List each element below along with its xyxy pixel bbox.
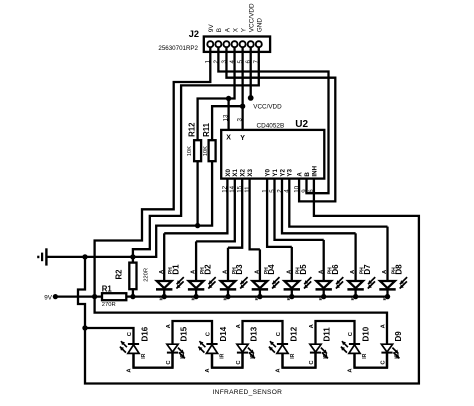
resistor R11 value 10K — [203, 146, 209, 156]
U2 pin label Y3 — [287, 168, 294, 176]
photodiode D6 — [316, 240, 344, 299]
IR LED D15 — [167, 344, 185, 368]
connector J2 value label 25630701RP2 — [158, 45, 198, 52]
wire R11 bottom to join node — [198, 161, 213, 225]
net label VCC/VDD — [253, 104, 282, 111]
D8 pin label A — [382, 269, 388, 274]
svg-text:Y0: Y0 — [265, 168, 272, 176]
svg-text:D5: D5 — [299, 264, 308, 275]
D2 pin label A — [191, 269, 197, 274]
photodiode D5 refdes label — [299, 264, 308, 275]
D14 pin label C — [205, 331, 211, 336]
D6 pin label K — [318, 296, 323, 300]
photodiode D2 — [188, 241, 216, 299]
wire 9V terminal to R1 — [55, 295, 102, 297]
D5 pin label K — [286, 296, 291, 300]
svg-text:3: 3 — [236, 118, 243, 122]
resistor R2 body — [129, 263, 136, 290]
connector J2 refdes label — [189, 29, 199, 39]
wire B: J2 pin2 to U2 pin9 — [218, 47, 328, 193]
svg-text:X3: X3 — [247, 168, 254, 176]
wire U2 Y0 to D5 anode — [267, 179, 292, 247]
pin number 6 of U2 — [308, 189, 315, 193]
D8 pin label K — [382, 296, 387, 300]
D7 label PH — [360, 267, 366, 274]
svg-text:D11: D11 — [322, 327, 331, 342]
D9 pin label C — [380, 360, 386, 365]
wire U2 Y2 to D7 anode — [282, 179, 356, 234]
net label INFRARED_SENSOR — [213, 389, 283, 396]
pin number 10 of U2 — [293, 185, 300, 192]
pin number 14 of U2 — [229, 185, 236, 192]
svg-text:D15: D15 — [179, 326, 188, 341]
D5 label PH — [296, 267, 302, 274]
wire D15 anode to D14 cathode (top) — [173, 321, 213, 344]
pin number 9 of U2 — [301, 189, 308, 193]
svg-text:13: 13 — [222, 114, 229, 121]
D7 pin label A — [350, 269, 356, 274]
D12 pin label C — [276, 331, 282, 336]
net name label VCC/VDD on J2 pin 6 — [249, 3, 256, 32]
pin number 1 of U2 — [261, 189, 268, 193]
wire R12 bottom to join node — [196, 161, 198, 225]
D1 pin label K — [159, 296, 164, 300]
svg-text:GND: GND — [257, 18, 264, 33]
connector J2 pin 7 circle — [256, 41, 262, 47]
svg-text:D7: D7 — [363, 264, 372, 275]
U2 value label CD4052B — [257, 123, 285, 130]
svg-text:D3: D3 — [235, 264, 244, 275]
svg-text:Y1: Y1 — [272, 168, 279, 176]
net name label 9V on J2 pin 1 — [208, 24, 215, 33]
wire D16 cathode to loop — [85, 328, 134, 344]
junction R1 right / R2 bottom / cathode bus — [130, 294, 135, 299]
svg-text:D4: D4 — [267, 264, 276, 275]
U2 pin label X — [226, 135, 231, 142]
net name label A on J2 pin 3 — [224, 27, 231, 32]
resistor R2 value 220R — [143, 268, 149, 282]
svg-text:25630701RP2: 25630701RP2 — [158, 45, 198, 52]
pin number 2 of J2 — [213, 60, 220, 64]
op-amp/mux U2 body — [221, 130, 324, 179]
photodiode D4 — [252, 249, 280, 299]
wire U2 X0 to D1 anode — [164, 179, 227, 234]
svg-text:10K: 10K — [203, 146, 209, 156]
svg-text:D14: D14 — [219, 326, 228, 341]
D16 pin label C — [127, 331, 133, 336]
U2 pin label A — [297, 172, 304, 177]
svg-text:U2: U2 — [295, 119, 308, 130]
svg-text:Y3: Y3 — [287, 168, 294, 176]
D10 pin label A — [348, 368, 354, 373]
photodiode D6 refdes label — [331, 264, 340, 275]
pin number 5 of J2 — [237, 60, 244, 64]
D4 label PH — [264, 267, 270, 274]
IR LED D16 — [120, 341, 139, 368]
resistor R12 refdes label — [188, 122, 197, 137]
U2 pin label INH — [311, 165, 318, 176]
IR LED D11 — [310, 344, 328, 368]
wire D16 anode to D15 cathode — [134, 353, 173, 368]
resistor R1 body — [102, 293, 126, 300]
pin number 12 of U2 — [222, 185, 229, 192]
D3 pin label K — [222, 296, 227, 300]
net name label B on J2 pin 2 — [216, 28, 223, 32]
resistor R1 value 270R — [102, 302, 116, 308]
svg-text:IR: IR — [323, 353, 329, 358]
D14 label IR — [220, 353, 226, 358]
connector J2 pin 6 circle — [248, 41, 254, 47]
wire U2 Y1 to D6 anode — [275, 179, 324, 240]
svg-text:9: 9 — [301, 189, 308, 193]
D15 pin label A — [166, 323, 172, 328]
svg-text:Y: Y — [240, 27, 247, 32]
svg-text:INFRARED_SENSOR: INFRARED_SENSOR — [213, 389, 283, 396]
svg-text:X2: X2 — [240, 168, 247, 176]
IR LED D16 refdes label — [140, 326, 149, 341]
pin number 4 of J2 — [229, 60, 236, 64]
svg-text:B: B — [216, 28, 223, 32]
D12 label IR — [290, 353, 296, 358]
D11 pin label C — [309, 360, 315, 365]
svg-text:J2: J2 — [189, 29, 199, 39]
D3 label PH — [232, 267, 238, 274]
svg-text:IR: IR — [395, 353, 401, 358]
svg-text:R11: R11 — [202, 122, 211, 137]
pin number 7 of J2 — [253, 60, 260, 64]
svg-text:D12: D12 — [289, 326, 298, 341]
svg-text:D6: D6 — [331, 264, 340, 275]
connector J2 pin 2 circle — [215, 41, 221, 47]
IR LED D10 refdes label — [361, 326, 370, 341]
IR LED D12 refdes label — [289, 326, 298, 341]
D14 pin label A — [205, 368, 211, 373]
D5 pin label A — [286, 269, 292, 274]
D16 label IR — [141, 353, 147, 358]
wire D13 anode to D12 cathode (top) — [243, 321, 283, 344]
D13 pin label A — [236, 323, 242, 328]
svg-text:D10: D10 — [361, 326, 370, 341]
U2 pin label X2 — [240, 168, 247, 176]
wire GND: J2 pin7 stair-step to ground rail — [133, 47, 259, 257]
U2 pin label Y2 — [279, 168, 286, 176]
svg-text:D13: D13 — [249, 326, 258, 341]
IR LED D14 — [198, 341, 217, 368]
wire U2 Y3 to D8 anode — [289, 179, 387, 227]
pin number 5 of U2 — [269, 189, 276, 193]
D2 label PH — [200, 267, 206, 274]
photodiode D8 refdes label — [395, 264, 404, 275]
wire U2 X2 to D3 anode — [228, 179, 242, 248]
svg-text:9V: 9V — [44, 294, 53, 301]
photodiode D2 refdes label — [203, 264, 212, 275]
svg-text:270R: 270R — [102, 302, 116, 308]
connector J2 body — [204, 37, 270, 52]
D12 pin label A — [276, 368, 282, 373]
U2 pin label Y — [240, 135, 245, 142]
pin number 3 of J2 — [221, 60, 228, 64]
wire Y: J2 pin5 down to U2 pin3 — [241, 47, 243, 130]
IR LED D14 refdes label — [219, 326, 228, 341]
wire photodiode cathode bus — [133, 295, 388, 297]
resistor R12 value 10K — [187, 146, 193, 156]
wire ground rail — [46, 256, 132, 258]
pin number 2 of U2 — [276, 189, 283, 193]
wire A: J2 pin3 to U2 pin10 — [226, 47, 335, 201]
D9 label IR — [395, 353, 401, 358]
svg-text:VCC/VDD: VCC/VDD — [249, 3, 256, 32]
pin number 13 of U2 — [222, 114, 229, 121]
D6 pin label A — [318, 269, 324, 274]
pin number 4 of U2 — [284, 189, 291, 193]
wire D11 anode to D10 cathode (top) — [316, 321, 355, 344]
photodiode D7 — [347, 233, 375, 299]
connector J2 pin 3 circle — [223, 41, 229, 47]
svg-text:B: B — [304, 172, 311, 177]
net name label X on J2 pin 4 — [232, 27, 239, 32]
D13 label IR — [250, 353, 256, 358]
svg-text:10: 10 — [293, 185, 300, 192]
photodiode D3 — [220, 248, 248, 300]
photodiode D4 refdes label — [267, 264, 276, 275]
D4 pin label A — [255, 269, 261, 274]
svg-text:IR: IR — [180, 353, 186, 358]
U2 pin label B — [304, 172, 311, 177]
IR LED D9 — [381, 344, 399, 368]
pin number 6 of J2 — [245, 60, 252, 64]
svg-text:10K: 10K — [187, 146, 193, 156]
wire VCC/VDD stub from J2 pin6 — [250, 47, 252, 98]
D11 label IR — [323, 353, 329, 358]
D13 pin label C — [236, 360, 242, 365]
svg-text:IR: IR — [250, 353, 256, 358]
U2 pin label X3 — [247, 168, 254, 176]
svg-text:220R: 220R — [143, 268, 149, 282]
node 9V terminal — [53, 294, 58, 299]
svg-text:IR: IR — [290, 353, 296, 358]
connector J2 pin 1 circle — [207, 41, 213, 47]
svg-text:D9: D9 — [394, 331, 403, 342]
IR LED D13 refdes label — [249, 326, 258, 341]
IR LED D11 refdes label — [322, 327, 331, 342]
photodiode D8 — [379, 227, 407, 300]
svg-text:R2: R2 — [115, 269, 124, 280]
wire D10 anode to D9 cathode — [355, 353, 388, 368]
IR LED D12 — [269, 341, 288, 368]
net name label GND on J2 pin 7 — [257, 18, 264, 33]
svg-text:D1: D1 — [171, 264, 180, 275]
wire X node to R12 top — [198, 99, 229, 141]
D9 pin label A — [380, 323, 386, 328]
pin number 15 of U2 — [237, 185, 244, 192]
net label 9V — [44, 294, 53, 301]
wire D14 anode to D13 cathode — [212, 353, 243, 368]
U2 pin label X0 — [225, 168, 232, 176]
svg-text:VCC/VDD: VCC/VDD — [253, 104, 282, 111]
pin number 3 of U2 — [236, 118, 243, 122]
D2 pin label K — [190, 296, 195, 300]
node X junction — [226, 96, 231, 101]
junction R11/R12 bottoms — [195, 223, 200, 228]
wire U2 X3 to D4 anode — [250, 179, 260, 250]
U2 refdes label — [295, 119, 308, 130]
D10 label IR — [362, 353, 368, 358]
svg-text:D2: D2 — [203, 264, 212, 275]
svg-text:IR: IR — [141, 353, 147, 358]
U2 pin label X1 — [232, 168, 239, 176]
wire R1 right — [126, 295, 133, 297]
D15 label IR — [180, 353, 186, 358]
D1 label PH — [168, 267, 174, 274]
svg-text:D8: D8 — [395, 264, 404, 275]
svg-text:CD4052B: CD4052B — [257, 123, 285, 130]
resistor R12 body — [194, 140, 201, 161]
resistor R11 body — [209, 140, 216, 161]
wire R11/R12 node to ground rail — [133, 226, 198, 257]
svg-text:X: X — [226, 135, 231, 142]
pin number 11 of U2 — [244, 186, 251, 193]
wire 9V: J2 pin1 stair-step down to R1 node — [95, 47, 211, 296]
D8 label PH — [391, 267, 397, 274]
wire X: J2 pin4 down to node X — [229, 47, 235, 130]
D1 pin label A — [159, 269, 165, 274]
junction ground rail / R2 top — [130, 254, 135, 259]
photodiode D7 refdes label — [363, 264, 372, 275]
svg-text:A: A — [224, 27, 231, 32]
D7 pin label K — [350, 296, 355, 300]
wire Y node to R11 top — [212, 106, 243, 140]
svg-text:Y: Y — [240, 135, 245, 142]
pin number 1 of J2 — [205, 60, 212, 64]
junction ground rail / sensor loop — [82, 254, 87, 259]
D11 pin label A — [309, 323, 315, 328]
svg-text:Y2: Y2 — [279, 168, 286, 176]
D4 pin label K — [254, 296, 259, 300]
node Y junction — [240, 104, 245, 109]
svg-text:X0: X0 — [225, 168, 232, 176]
wire R2 top — [132, 257, 134, 263]
wire R2 bottom — [132, 289, 134, 296]
D15 pin label C — [166, 360, 172, 365]
D3 pin label A — [223, 269, 229, 274]
svg-text:9V: 9V — [208, 24, 215, 33]
IR LED D10 — [341, 341, 360, 368]
junction 9V node — [92, 294, 97, 299]
photodiode D1 — [156, 233, 184, 299]
svg-text:X1: X1 — [232, 168, 239, 176]
photodiode D5 — [284, 247, 312, 299]
U2 pin label Y1 — [272, 168, 279, 176]
svg-text:IR: IR — [220, 353, 226, 358]
svg-text:R1: R1 — [102, 285, 113, 294]
net name label Y on J2 pin 5 — [240, 27, 247, 32]
junction loop / D16 cathode link — [82, 325, 87, 330]
resistor R1 refdes label — [102, 285, 113, 294]
wire D12 anode to D11 cathode — [283, 353, 316, 368]
svg-text:R12: R12 — [188, 122, 197, 137]
D6 label PH — [328, 267, 334, 274]
ground symbol — [38, 248, 46, 265]
IR LED D9 refdes label — [394, 331, 403, 342]
wire infrared sensor ground loop (left edge with jog, bottom, right edge, to U2 INH) — [78, 179, 419, 384]
U2 pin label Y0 — [265, 168, 272, 176]
IR LED D13 — [237, 344, 255, 368]
svg-text:D16: D16 — [140, 326, 149, 341]
resistor R11 refdes label — [202, 122, 211, 137]
svg-text:INH: INH — [311, 165, 318, 176]
svg-text:X: X — [232, 27, 239, 32]
photodiode D1 refdes label — [171, 264, 180, 275]
svg-text:IR: IR — [362, 353, 368, 358]
wire 9V feed to D9 anode — [95, 297, 387, 345]
wire U2 X1 to D2 anode — [196, 179, 235, 242]
connector J2 pin 4 circle — [232, 41, 238, 47]
IR LED D15 refdes label — [179, 326, 188, 341]
photodiode D3 refdes label — [235, 264, 244, 275]
connector J2 pin 5 circle — [240, 41, 246, 47]
node VCC/VDD — [248, 95, 254, 101]
resistor R2 refdes label — [115, 269, 124, 280]
D10 pin label C — [348, 331, 354, 336]
svg-text:A: A — [297, 172, 304, 177]
D16 pin label A — [127, 368, 133, 373]
